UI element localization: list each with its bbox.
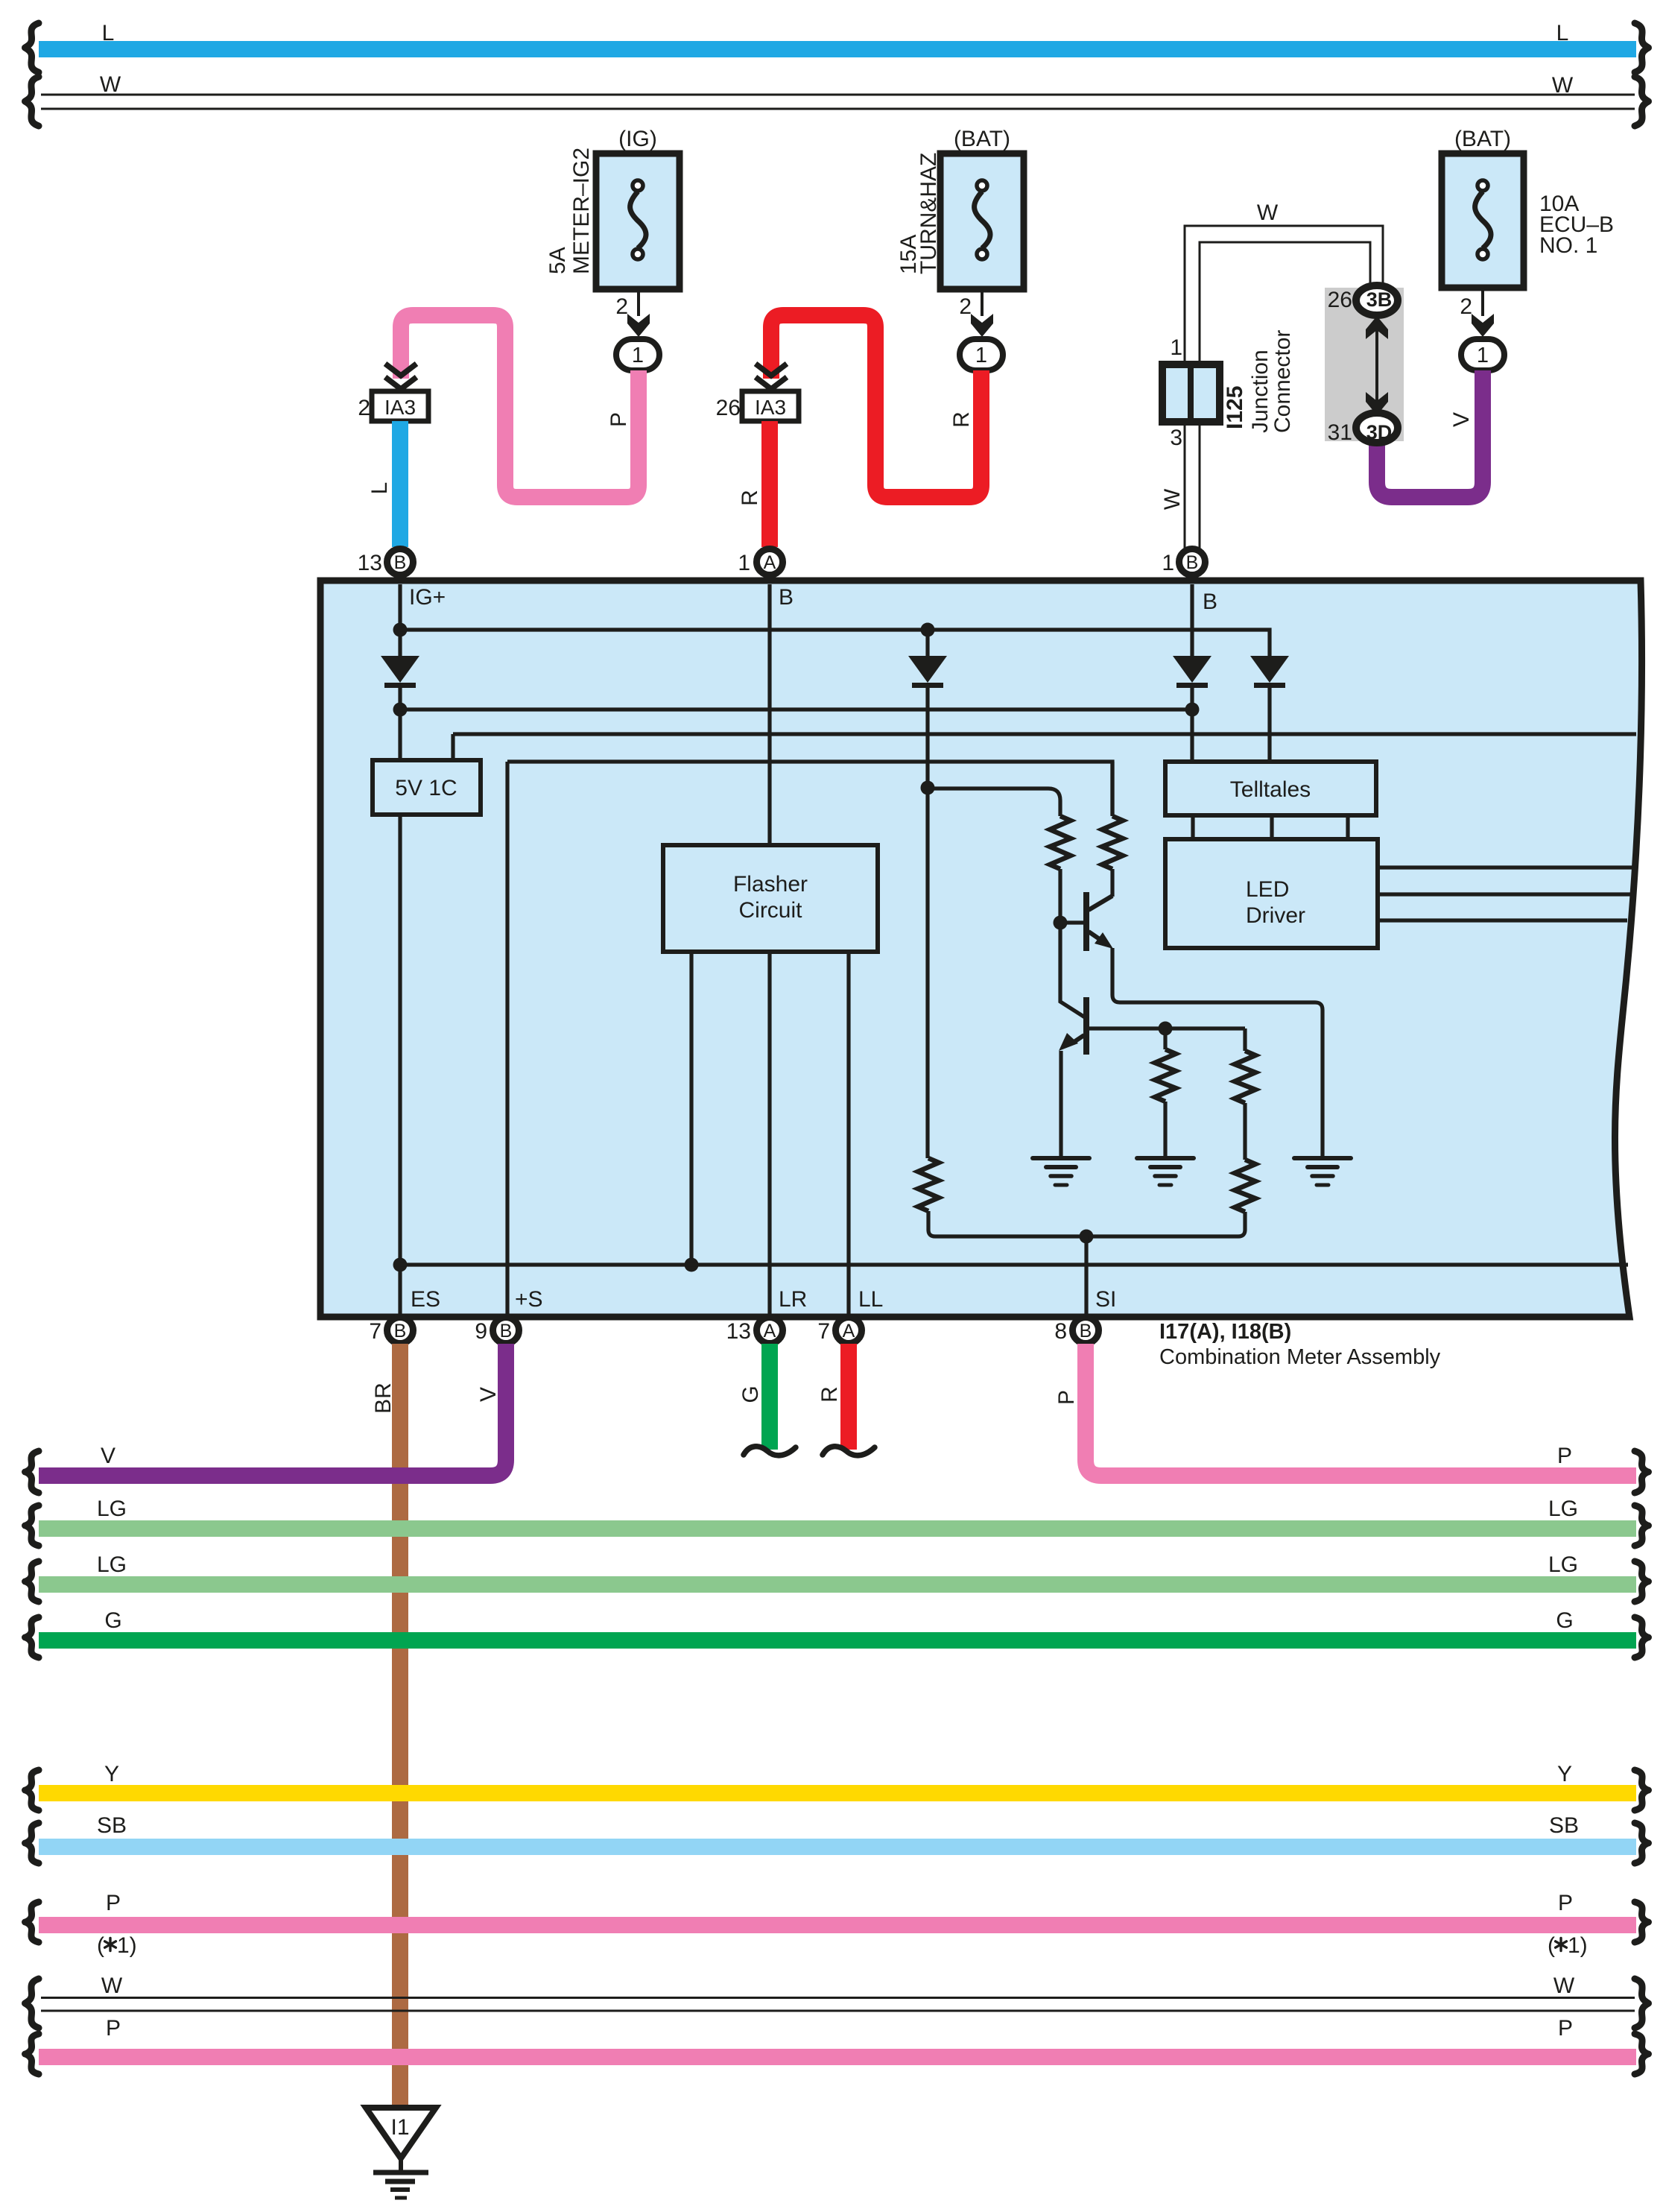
junction dot R3 <box>1159 1022 1173 1036</box>
svg-text:L: L <box>1556 21 1569 45</box>
svg-text:I1: I1 <box>390 2115 409 2140</box>
svg-text:LED: LED <box>1246 877 1289 902</box>
wire SB band <box>39 1839 1636 1855</box>
svg-text:1: 1 <box>738 551 750 575</box>
svg-text:3: 3 <box>1170 426 1182 450</box>
junction connector I125 <box>1162 364 1220 422</box>
fuse 10A ECU-B NO.1 <box>1442 154 1524 288</box>
junction dot line2/IG+ <box>393 703 408 717</box>
wire R (red) IA3 to pin 1A <box>761 421 778 547</box>
svg-text:Junction: Junction <box>1248 350 1273 433</box>
svg-text:P: P <box>1054 1390 1079 1405</box>
brace left P2 <box>25 2034 39 2074</box>
wire fuse1 to terminal <box>637 289 640 316</box>
Q2 emitter arrow <box>1059 1033 1078 1051</box>
wire LG band 1 <box>39 1520 1636 1537</box>
wire B(1B) vertical <box>1190 584 1194 656</box>
telltales-led stubs <box>1193 815 1348 839</box>
svg-text:2: 2 <box>1460 294 1472 319</box>
brace right of L <box>1635 23 1649 72</box>
junction dot flasher/bottom bus <box>685 1258 699 1272</box>
Q1 base node dot <box>1054 916 1068 930</box>
wire G band <box>39 1632 1636 1649</box>
svg-text:Y: Y <box>1557 1762 1572 1786</box>
svg-text:I17(A), I18(B): I17(A), I18(B) <box>1159 1320 1291 1344</box>
brace left SB <box>25 1823 39 1863</box>
wire W band lower <box>41 1998 1635 2012</box>
svg-text:ES: ES <box>411 1287 440 1312</box>
wire Y band <box>39 1785 1636 1801</box>
wire D4 to telltales <box>1267 683 1271 762</box>
svg-text:7: 7 <box>369 1319 381 1344</box>
svg-text:IA3: IA3 <box>755 396 786 419</box>
svg-text:1: 1 <box>975 344 987 367</box>
brace right LG2 <box>1635 1561 1649 1602</box>
wire fuse3 to terminal <box>1481 288 1484 316</box>
terminal oval 1 (TURN fuse) <box>960 339 1003 370</box>
gray junction block <box>1325 288 1404 441</box>
svg-text:R: R <box>949 411 974 428</box>
wire V (purple) from 9B to left <box>39 1344 506 1476</box>
wire BR (brown) to ground <box>392 1344 408 2110</box>
svg-text:B: B <box>779 585 794 610</box>
resistor R4 upper <box>1235 1051 1255 1103</box>
telltales box <box>1165 762 1376 815</box>
pin 13 A (LR) <box>757 1318 783 1344</box>
svg-text:LL: LL <box>858 1287 883 1312</box>
svg-text:R: R <box>817 1386 842 1403</box>
Q1 emitter wire to ground G4 <box>1112 948 1323 1158</box>
svg-text:V: V <box>101 1444 115 1468</box>
bus line 2 <box>400 707 1192 711</box>
svg-text:W: W <box>1552 73 1574 98</box>
transistor Q2 bar <box>1083 997 1089 1055</box>
arrowhead down into 3D <box>1366 392 1388 415</box>
ground I1 bars <box>373 2170 428 2175</box>
bottom bus y1697 <box>400 1263 1628 1266</box>
svg-text:A: A <box>764 552 776 573</box>
brace right Wl <box>1635 1979 1649 2028</box>
svg-text:B: B <box>1186 552 1199 573</box>
svg-text:I125: I125 <box>1223 386 1247 429</box>
svg-text:5A: 5A <box>545 247 570 274</box>
svg-text:(IG): (IG) <box>618 127 657 151</box>
svg-text:LG: LG <box>97 1497 127 1521</box>
brace left LG2 <box>25 1561 39 1602</box>
svg-text:Driver: Driver <box>1246 903 1305 928</box>
brace right SB <box>1635 1823 1649 1863</box>
brace left of L <box>25 23 39 72</box>
Q1 emitter diagonal <box>1089 932 1103 941</box>
svg-text:P: P <box>1558 1891 1573 1915</box>
svg-text:A: A <box>843 1321 855 1342</box>
bus line 4 <box>507 762 1112 1314</box>
svg-text:Combination Meter Assembly: Combination Meter Assembly <box>1159 1345 1441 1369</box>
pin 9 B (+S) <box>493 1318 519 1344</box>
chevrons into IA3 (pin 26) <box>756 364 787 376</box>
pin 8 B (SI) <box>1073 1318 1099 1344</box>
svg-text:Telltales: Telltales <box>1230 777 1311 802</box>
pin 1 A <box>757 549 783 575</box>
svg-text:P: P <box>1558 2016 1573 2041</box>
wire L (blue) IA3 to pin 13B <box>392 421 408 547</box>
svg-text:Circuit: Circuit <box>738 898 802 923</box>
brace right Y <box>1635 1770 1649 1810</box>
wire diode column x1245 <box>925 630 929 656</box>
svg-text:G: G <box>1556 1608 1573 1633</box>
brace right P1 <box>1635 1902 1649 1942</box>
svg-text:3B: 3B <box>1366 288 1393 311</box>
svg-text:SI: SI <box>1095 1287 1116 1312</box>
wire R3 to ground G2 <box>1163 1102 1167 1158</box>
svg-text:L: L <box>102 21 115 45</box>
wire fuse2 to terminal <box>981 289 984 316</box>
svg-text:METER–IG2: METER–IG2 <box>569 148 594 274</box>
terminal oval 1 (ECU-B fuse) <box>1461 339 1504 370</box>
svg-text:R: R <box>738 490 762 506</box>
wire x1245 down <box>925 683 929 1158</box>
ground G2 <box>1137 1156 1194 1160</box>
svg-text:B: B <box>500 1321 513 1342</box>
brace left P1 <box>25 1902 39 1942</box>
svg-text:3D: 3D <box>1366 421 1393 443</box>
svg-text:1): 1) <box>1568 1933 1588 1958</box>
wire P band 2 <box>39 2049 1636 2065</box>
LED driver outputs <box>1378 868 1633 920</box>
Q1 base wire <box>1060 920 1083 924</box>
resistor R3 lead <box>1163 1028 1167 1049</box>
wire IG+ vertical <box>398 584 402 656</box>
svg-text:9: 9 <box>475 1319 487 1344</box>
wire R4 to bottom rail <box>1238 1212 1245 1236</box>
wire to R1 <box>928 789 1060 816</box>
fuse 5A METER-IG2 <box>596 154 680 289</box>
brace left of W <box>25 77 39 126</box>
svg-text:13: 13 <box>358 551 382 575</box>
break squiggle under G <box>744 1447 796 1456</box>
wire W (top harness, white) <box>41 95 1635 109</box>
svg-text:Flasher: Flasher <box>733 872 808 897</box>
wire V (purple) terminal to 3D <box>1377 370 1483 497</box>
ground G1 <box>1033 1156 1089 1160</box>
flasher out LR <box>767 952 771 1314</box>
diode D3 <box>908 656 947 683</box>
wire R1 to Q1 base node <box>1058 869 1062 923</box>
junction dot ES/bottom bus <box>393 1258 408 1272</box>
svg-text:LG: LG <box>97 1552 127 1577</box>
ground I1 triangle <box>366 2108 436 2158</box>
wire B(A) vertical to flasher <box>767 584 771 845</box>
svg-text:W: W <box>1160 488 1185 510</box>
svg-text:SB: SB <box>97 1813 127 1838</box>
svg-text:(BAT): (BAT) <box>1454 127 1511 151</box>
svg-text:P: P <box>106 2016 121 2041</box>
svg-text:2: 2 <box>358 396 370 420</box>
svg-text:P: P <box>1557 1444 1572 1468</box>
diode D2 <box>1173 656 1212 683</box>
chevrons into IA3 (pin 2) <box>385 364 417 376</box>
break squiggle under R <box>823 1447 875 1456</box>
ground I1 stem <box>399 2158 403 2171</box>
connector IA3 (right) <box>742 391 799 421</box>
wire ES vertical <box>398 815 402 1314</box>
wire R4a-R4b <box>1243 1028 1247 1160</box>
svg-text:V: V <box>476 1387 501 1402</box>
arrow into terminal 1 fuse3 <box>1472 314 1494 337</box>
Q1 emitter arrow <box>1095 932 1113 949</box>
svg-text:5V 1C: 5V 1C <box>395 776 457 800</box>
svg-text:V: V <box>1449 412 1474 427</box>
Q2 base wire <box>1089 1026 1245 1030</box>
svg-text:B: B <box>394 552 407 573</box>
svg-text:P: P <box>106 1891 121 1915</box>
svg-text:G: G <box>738 1385 763 1403</box>
resistor R3 <box>1155 1049 1176 1102</box>
svg-text:Y: Y <box>104 1762 119 1786</box>
junction dot line1/IG+ <box>393 623 408 637</box>
bus line 1 <box>400 630 1270 656</box>
svg-text:1: 1 <box>1170 335 1182 360</box>
resistor R1 <box>1050 816 1071 869</box>
svg-text:7: 7 <box>817 1319 830 1344</box>
brace right of W <box>1635 77 1649 126</box>
wire G (green) from 13A <box>761 1344 778 1450</box>
resistor R5 <box>918 1158 939 1211</box>
junction dot x1245 y1056 <box>921 781 935 795</box>
svg-text:31: 31 <box>1328 420 1352 445</box>
oval 3D <box>1356 413 1398 443</box>
svg-text:Connector: Connector <box>1270 330 1295 433</box>
wire SI vertical <box>1084 1236 1088 1314</box>
junction dot line2 right <box>1185 703 1200 717</box>
resistor R4 lower <box>1235 1160 1255 1212</box>
Q1 collector diagonal <box>1089 896 1112 910</box>
wire P band 1 <box>39 1917 1636 1933</box>
terminal oval 1 (IG fuse) <box>616 339 659 370</box>
wire R (red) from terminal to IA3 <box>771 315 981 497</box>
oval 3B <box>1356 285 1398 315</box>
junction dot SI <box>1080 1230 1094 1244</box>
resistor R2 lead <box>1110 762 1114 816</box>
arrow into terminal 1 <box>627 314 650 337</box>
fuse 15A TURN&HAZ <box>940 154 1024 289</box>
brace left V band <box>25 1451 39 1493</box>
brace right P band <box>1635 1451 1649 1493</box>
Q2 collector wire <box>1060 923 1085 1017</box>
svg-text:2: 2 <box>615 294 628 319</box>
arrow into terminal 1 fuse2 <box>971 314 993 337</box>
svg-text:+S: +S <box>515 1287 543 1312</box>
diode D4 <box>1250 656 1289 683</box>
svg-text:TURN&HAZ: TURN&HAZ <box>916 153 941 274</box>
brace right P2 <box>1635 2034 1649 2074</box>
wire W inner <box>1200 242 1370 364</box>
flasher out LL <box>846 952 850 1314</box>
pin 13 B <box>387 549 414 575</box>
wire W lower pair <box>1185 422 1200 548</box>
svg-text:A: A <box>764 1321 776 1342</box>
wire P (pink) from 8B to right <box>1086 1344 1636 1476</box>
svg-text:13: 13 <box>726 1319 751 1344</box>
svg-text:1: 1 <box>1477 344 1489 367</box>
svg-text:(: ( <box>1548 1933 1555 1958</box>
arrowhead up into 3B <box>1366 316 1388 339</box>
svg-text:NO. 1: NO. 1 <box>1539 233 1597 258</box>
svg-text:W: W <box>101 1974 123 1998</box>
svg-text:B: B <box>1203 590 1217 614</box>
transistor Q1 bar <box>1083 892 1089 951</box>
brace left G <box>25 1617 39 1658</box>
wire R5 to bottom rail <box>928 1211 935 1236</box>
svg-text:IG+: IG+ <box>409 585 446 610</box>
wire D1 to 5V box <box>398 683 402 760</box>
wire D2 to telltales <box>1190 683 1194 762</box>
bus line 3 <box>453 734 1636 760</box>
wire P (pink) from terminal 1 to IA3 <box>401 315 639 497</box>
combination meter assembly box <box>320 581 1642 1317</box>
svg-text:W: W <box>1553 1974 1575 1998</box>
svg-text:2: 2 <box>959 294 972 319</box>
junction dot line1 at x1245 <box>921 623 935 637</box>
resistor R2 <box>1102 816 1123 869</box>
svg-text:1: 1 <box>632 344 644 367</box>
Q2 emitter diagonal <box>1073 1035 1084 1043</box>
svg-text:G: G <box>104 1608 121 1633</box>
diode D1 <box>381 656 419 683</box>
svg-text:26: 26 <box>1328 288 1352 312</box>
pin 7 A (LL) <box>836 1318 862 1344</box>
svg-text:(: ( <box>97 1933 104 1958</box>
brace right G <box>1635 1617 1649 1658</box>
svg-text:1): 1) <box>117 1933 137 1958</box>
connector IA3 (left) <box>372 391 428 421</box>
wire R (red) from 7A <box>840 1344 857 1450</box>
arrow line 3B-3D <box>1375 328 1378 402</box>
svg-text:26: 26 <box>716 396 741 420</box>
svg-text:(BAT): (BAT) <box>954 127 1010 151</box>
wire W outer (white wire outline) <box>1185 226 1383 364</box>
Q2 emitter wire to ground G1 <box>1059 1051 1062 1158</box>
pin 7 B (ES) <box>387 1318 414 1344</box>
brace left Wl <box>25 1979 39 2028</box>
svg-text:P: P <box>606 412 631 427</box>
svg-text:LG: LG <box>1548 1552 1578 1577</box>
svg-text:1: 1 <box>1162 551 1174 575</box>
svg-text:L: L <box>367 482 392 495</box>
brace left Y <box>25 1770 39 1810</box>
svg-text:IA3: IA3 <box>384 396 416 419</box>
wire R2 to Q1 collector <box>1110 869 1114 897</box>
pin 1 B <box>1179 549 1206 575</box>
svg-text:LR: LR <box>779 1287 807 1312</box>
svg-text:BR: BR <box>371 1382 396 1414</box>
svg-text:8: 8 <box>1054 1319 1067 1344</box>
flasher circuit box <box>663 845 878 952</box>
svg-text:B: B <box>394 1321 407 1342</box>
ground G4 <box>1294 1156 1351 1160</box>
svg-text:W: W <box>1257 200 1279 225</box>
brace right LG1 <box>1635 1505 1649 1546</box>
bottom rail y1659 <box>935 1234 1238 1238</box>
svg-text:B: B <box>1080 1321 1092 1342</box>
flasher out left <box>689 952 693 1265</box>
wire L (top harness, blue) <box>39 41 1636 57</box>
5V 1C box <box>373 760 481 815</box>
svg-text:W: W <box>100 72 121 97</box>
svg-text:SB: SB <box>1549 1813 1579 1838</box>
brace left LG1 <box>25 1505 39 1546</box>
LED driver box <box>1165 839 1378 948</box>
wire LG band 2 <box>39 1576 1636 1593</box>
svg-text:LG: LG <box>1548 1497 1578 1521</box>
